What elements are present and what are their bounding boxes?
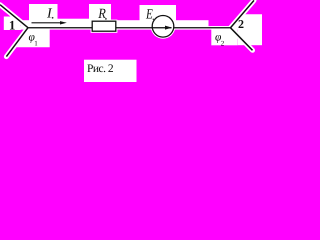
svg-text:Рис. 2: Рис. 2	[87, 63, 114, 75]
svg-text:1: 1	[34, 40, 38, 48]
svg-text:2: 2	[221, 40, 225, 48]
svg-text:2: 2	[238, 17, 244, 31]
svg-text:E: E	[145, 6, 153, 22]
svg-text:R: R	[97, 6, 106, 22]
svg-text:1: 1	[9, 18, 16, 33]
